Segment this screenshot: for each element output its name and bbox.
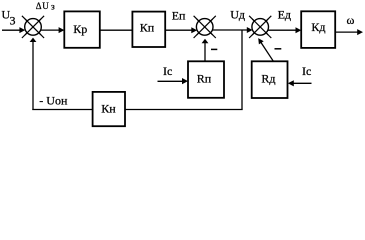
- svg-text:Кн: Кн: [101, 101, 116, 115]
- wire SJ1 to Kp: [41, 29, 60, 31]
- svg-text:Ед: Ед: [278, 8, 291, 22]
- svg-text:U: U: [42, 1, 49, 11]
- node ΔUε label: [36, 1, 55, 12]
- wire Iс into Rд: [293, 82, 312, 84]
- svg-text:Rп: Rп: [197, 72, 212, 86]
- wire bottom feedback left segment: [32, 109, 92, 111]
- node Uз input label: [2, 8, 16, 28]
- block Кр: [64, 11, 100, 47]
- wire SJ3 to Кд: [268, 29, 296, 31]
- block Кд: [301, 11, 335, 48]
- svg-text:Кп: Кп: [140, 21, 155, 35]
- wire Kp2 to SJ2: [165, 29, 192, 31]
- svg-text:Uд: Uд: [230, 8, 245, 22]
- summing junction 1: [22, 16, 44, 38]
- block Rп: [188, 61, 224, 98]
- wire Кд to output: [335, 31, 358, 33]
- svg-text:Δ: Δ: [36, 1, 42, 11]
- block Rд: [252, 61, 288, 98]
- svg-text:Еп: Еп: [172, 9, 186, 23]
- wire Kp to Kp2: [100, 29, 133, 31]
- summing junction 2: [194, 16, 216, 38]
- svg-text:Кр: Кр: [73, 22, 87, 36]
- svg-text:3: 3: [10, 13, 16, 27]
- block Кн: [93, 92, 125, 126]
- minus sign at SJ2: [211, 48, 217, 50]
- svg-text:Iс: Iс: [302, 64, 311, 78]
- wire SJ2 to SJ3 with junction at Uд node: [212, 29, 247, 31]
- wire SJ3 feedback diagonal from Rд top: [261, 43, 273, 62]
- wire Iс into Rп: [158, 80, 183, 82]
- svg-text:- Uон: - Uон: [39, 93, 68, 107]
- svg-text:ω: ω: [347, 13, 355, 27]
- wire feedback up to SJ1: [32, 42, 34, 110]
- wire input to summing junction 1: [2, 29, 20, 31]
- svg-text:Rд: Rд: [261, 71, 275, 85]
- summing junction 3: [249, 16, 271, 38]
- minus sign at SJ3: [275, 48, 282, 50]
- svg-text:Iс: Iс: [163, 64, 172, 78]
- block Кп: [132, 12, 165, 47]
- wire SJ2 feedback from Rп top: [204, 43, 206, 62]
- svg-text:з: з: [51, 2, 55, 12]
- svg-text:Кд: Кд: [311, 20, 325, 34]
- wire Uд node down: [241, 30, 243, 109]
- wire bottom feedback right segment: [125, 109, 243, 111]
